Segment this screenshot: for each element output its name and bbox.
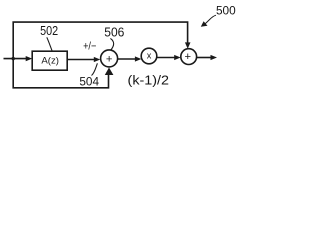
block 502 A(z) — [32, 51, 67, 70]
leader 506 — [110, 38, 113, 50]
arrowhead into box A(z) — [26, 56, 33, 61]
svg-text:502: 502 — [40, 24, 58, 38]
wire first adder to multiplier — [118, 58, 136, 60]
svg-text:504: 504 — [79, 74, 99, 88]
wire top feedback path — [13, 22, 187, 59]
arrowhead into first adder — [94, 57, 101, 62]
arrowhead into multiplier — [135, 56, 142, 61]
op: second adder circle — [181, 49, 197, 65]
svg-text:x: x — [147, 51, 152, 61]
svg-text:+/−: +/− — [83, 41, 96, 53]
arrowhead into second adder — [174, 55, 181, 60]
wire box A(z) to first adder — [67, 59, 95, 61]
svg-text:A(z): A(z) — [41, 56, 59, 67]
arrowhead bypass up into first adder — [105, 68, 114, 76]
leader 502 — [47, 37, 52, 50]
op: first adder circle — [101, 50, 118, 67]
svg-text:+: + — [185, 51, 192, 63]
wire output line — [197, 57, 212, 59]
svg-text:(k-1)/2: (k-1)/2 — [128, 74, 170, 88]
svg-text:500: 500 — [216, 3, 236, 17]
wire multiplier to second adder — [157, 57, 176, 59]
arrowhead output — [211, 55, 218, 60]
node junction dot on input — [12, 57, 15, 60]
arrowhead feedback down into second adder — [185, 42, 191, 48]
leader 504 — [92, 63, 98, 75]
svg-text:506: 506 — [104, 25, 124, 39]
wire bottom bypass path — [13, 59, 108, 88]
svg-text:+: + — [106, 53, 113, 65]
leader arrow 500 — [205, 15, 216, 23]
op: multiplier circle — [141, 48, 157, 64]
wire input line — [4, 58, 28, 60]
